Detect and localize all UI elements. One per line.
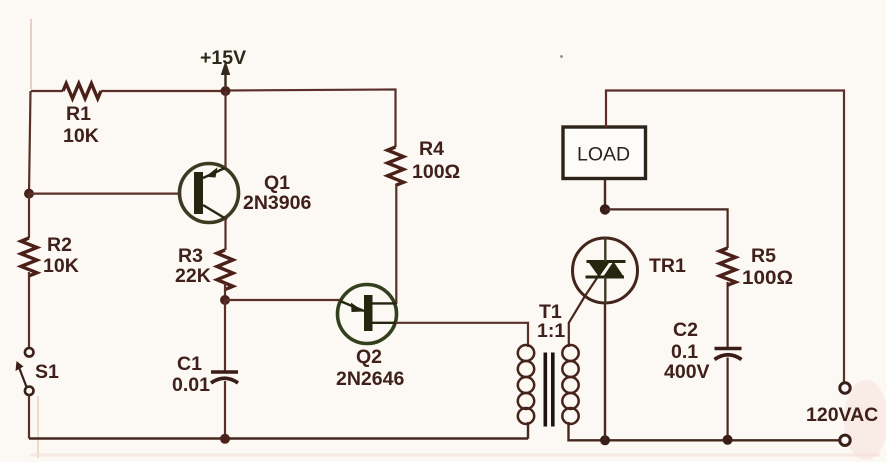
scan artifact faint line top-left [30, 19, 32, 89]
transistor Q2 2N2646 [338, 285, 397, 344]
wire base node down to R2 [28, 194, 30, 238]
scan artifact speck [560, 55, 563, 58]
resistor R2 [21, 238, 37, 276]
node C2/bottom rail junction dot [723, 435, 733, 445]
scan artifact pink smudge right [844, 380, 886, 460]
scan artifact pink band bottom [30, 454, 880, 457]
transformer T1 secondary winding [562, 345, 578, 424]
svg-text:22K: 22K [175, 265, 211, 287]
svg-text:TR1: TR1 [649, 255, 686, 277]
wire R1 to +15V node [101, 90, 226, 92]
svg-text:0.1: 0.1 [671, 341, 698, 363]
node LOAD/triac/R5 junction dot [600, 204, 610, 214]
svg-text:Q1: Q1 [264, 172, 290, 194]
svg-text:R5: R5 [751, 245, 776, 267]
svg-text:10K: 10K [63, 125, 99, 147]
svg-text:100Ω: 100Ω [412, 161, 460, 183]
svg-text:100Ω: 100Ω [742, 267, 793, 289]
wire triac gate to secondary top [569, 272, 601, 347]
resistor R1 [63, 84, 101, 99]
svg-text:400V: 400V [664, 361, 710, 383]
wire left rail (corner to base node) [29, 91, 31, 194]
transformer T1 primary winding [518, 345, 534, 424]
svg-text:2N2646: 2N2646 [336, 368, 404, 390]
switch S1 [16, 348, 34, 395]
wire C2 to bottom rail [726, 358, 728, 440]
terminal 120VAC bottom [840, 435, 850, 445]
svg-text:R3: R3 [178, 245, 203, 267]
wire top rail left (node to left corner) [31, 90, 63, 92]
load box [563, 127, 646, 179]
svg-text:S1: S1 [35, 361, 59, 383]
svg-text:10K: 10K [43, 255, 79, 277]
terminal 120VAC top [840, 383, 850, 393]
transistor Q1 2N3906 [180, 164, 239, 223]
node triac MT2 / rail junction dot [600, 435, 610, 445]
resistor R5 [720, 248, 736, 285]
svg-text:R2: R2 [47, 234, 72, 256]
wire node to Q2 emitter [225, 299, 341, 301]
wire LOAD bottom to triac node [604, 179, 606, 210]
wire primary bottom to rail [527, 422, 529, 439]
wire triac node to R5 branch [605, 209, 728, 248]
svg-text:120VAC: 120VAC [806, 404, 878, 426]
node +15V junction dot [221, 86, 231, 96]
capacitor C1 [211, 372, 238, 383]
wire +15V node down to Q1 emitter [224, 91, 226, 168]
svg-text:C2: C2 [673, 319, 698, 341]
wire R3 to node [224, 283, 226, 300]
wire R4 down to Q2 base2 [395, 184, 397, 304]
wire +15V node to R4 corner [226, 90, 396, 148]
node C1/bottom rail junction dot [220, 434, 230, 444]
capacitor C2 [715, 349, 742, 360]
wire triac MT2 to rail [604, 303, 606, 440]
wire node down to C1 [224, 300, 226, 371]
wire bottom rail left section [29, 437, 528, 439]
wire Q2 base1 to transformer primary [396, 323, 528, 347]
+15V arrow [221, 61, 230, 87]
svg-text:0.01: 0.01 [172, 374, 210, 396]
node R3/C1/Q2 junction dot [220, 295, 230, 305]
svg-text:1:1: 1:1 [537, 320, 565, 342]
svg-text:C1: C1 [177, 353, 202, 375]
wire secondary bottom to rail [569, 422, 606, 440]
svg-text:LOAD: LOAD [577, 144, 630, 166]
svg-text:R1: R1 [66, 103, 91, 125]
svg-text:2N3906: 2N3906 [243, 192, 311, 214]
resistor R4 [388, 147, 404, 185]
wire S1 to bottom rail corner [28, 396, 30, 439]
wire base node to Q1 [29, 193, 180, 195]
wire bottom rail right section [605, 439, 840, 441]
triac TR1 [573, 238, 638, 303]
wire C1 to bottom rail [224, 381, 226, 439]
scan artifact faint line below S1 [37, 396, 39, 458]
svg-text:R4: R4 [419, 138, 444, 160]
svg-text:Q2: Q2 [356, 346, 382, 368]
svg-text:+15V: +15V [200, 47, 246, 69]
wire R2 to S1 [28, 272, 30, 348]
transformer T1 core bars [544, 353, 555, 427]
wire R5 to C2 [726, 282, 728, 348]
wire Q1 collector down to R3 [224, 218, 226, 250]
resistor R3 [217, 250, 233, 290]
wire LOAD top to right rail [606, 91, 844, 383]
node base junction dot [24, 189, 34, 199]
